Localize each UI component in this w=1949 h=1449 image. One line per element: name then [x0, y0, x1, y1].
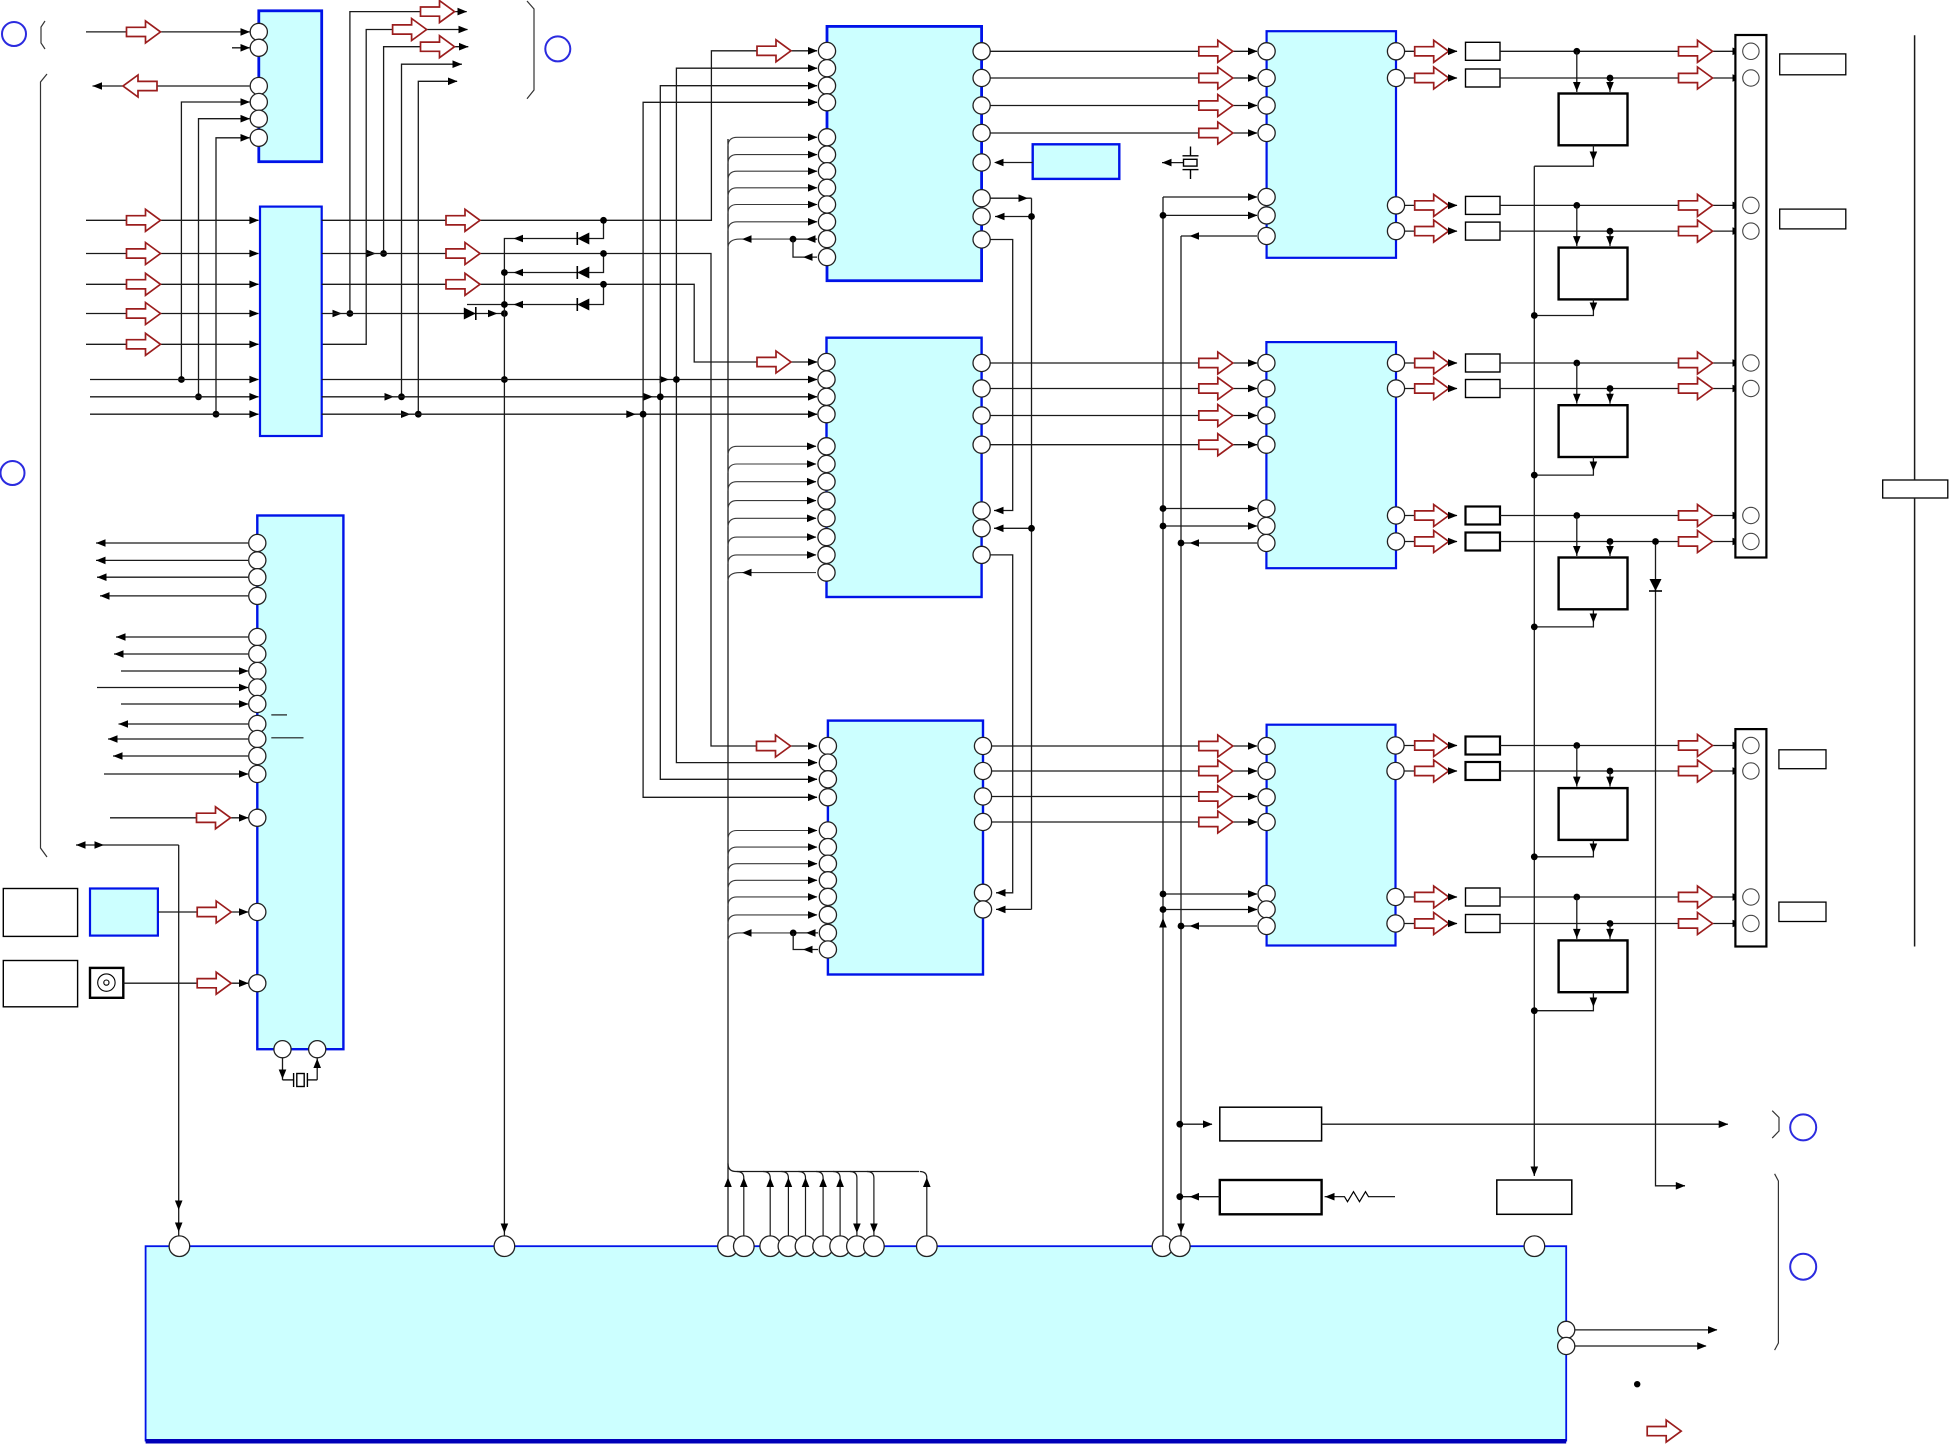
wire T6 drop2	[1606, 924, 1614, 939]
U9 right pin 1	[1558, 1321, 1575, 1338]
U8 right pin 2	[1387, 762, 1404, 779]
wire T4 drop2	[1606, 542, 1614, 557]
U7 left pin 4	[1258, 436, 1275, 453]
U10 left pin 16	[249, 975, 266, 992]
U9 top pin 11	[864, 1236, 885, 1257]
wire R-U7c to connector	[1500, 505, 1742, 527]
U5 left pin 9	[818, 510, 835, 527]
wire bus-A to U4 p6	[1163, 212, 1258, 220]
wire R-U4d out	[1404, 220, 1458, 242]
node P1 (blue circle top-left)	[2, 22, 26, 46]
junction V5/L8	[401, 410, 422, 418]
U6 right pin 4	[974, 813, 991, 830]
wire U1 pin5 to L7	[199, 115, 251, 397]
U10 left pin 3	[249, 569, 266, 586]
U5 left pin 8	[818, 492, 835, 509]
bus tap U3 lower pin 4	[728, 184, 818, 197]
U3 left pin 1	[818, 42, 835, 59]
wire T3 drop2	[1606, 389, 1614, 404]
bus tap U6 lower pin 2	[728, 843, 818, 856]
wire L1 input	[86, 209, 259, 231]
U9 top pin 7	[795, 1236, 816, 1257]
wire U1 pin4 to L6	[181, 98, 250, 379]
wire L4 input	[86, 303, 259, 325]
junction D3/V504	[501, 301, 508, 308]
block BX1	[1220, 1107, 1322, 1141]
U1 pin 1	[250, 23, 267, 40]
U6 left pin 3	[819, 771, 836, 788]
junction L4/bus	[501, 310, 508, 317]
wire X2 left	[279, 1058, 287, 1080]
junction T4 in2	[1607, 538, 1614, 545]
wire U1 input 1	[86, 21, 250, 43]
diode D5	[1649, 579, 1662, 591]
U5 left pin 6	[818, 455, 835, 472]
wire U10 out4	[100, 592, 248, 600]
U5 left pin 4	[818, 406, 835, 423]
U3 left pin 11	[818, 231, 835, 248]
junction U1p4/L6	[178, 376, 185, 383]
wire L8 branch up to U3 pin4	[643, 99, 817, 415]
wire L8 branch down to U6 pin4	[643, 414, 817, 801]
resistor R-U8a	[1466, 737, 1501, 755]
U8 left pin 7	[1258, 917, 1275, 934]
U9 top pin 12	[917, 1236, 938, 1257]
U4 left pin 7	[1258, 227, 1275, 244]
junction D1/L1	[600, 217, 607, 224]
wire T2 out	[1534, 299, 1597, 315]
U7 left pin 6	[1258, 517, 1275, 534]
U6 right pin 5	[974, 884, 991, 901]
wire U3 out1 to U4	[990, 40, 1258, 62]
CN1 pin 1	[1743, 43, 1759, 59]
bus tap U3 lower pin 1	[728, 134, 818, 147]
junction T5 in1	[1573, 742, 1580, 749]
bus tap U5 lower pin 4	[728, 497, 817, 510]
wire U1 pin6 to L8	[216, 134, 250, 414]
jack J1	[90, 968, 123, 998]
bus arrow-tap U3 pin7	[728, 235, 793, 248]
U8 left pin 3	[1258, 789, 1275, 806]
resistor R-U8b	[1466, 762, 1501, 780]
bus spine drop 7	[850, 1172, 861, 1237]
wire V2 (U2 out5 up, out top)	[322, 19, 468, 345]
wire R-U4b to connector	[1500, 67, 1742, 89]
U4 right pin 3	[1387, 197, 1404, 214]
junction L6 branch	[660, 376, 680, 384]
U4 left pin 2	[1258, 69, 1275, 86]
junction V1031/U5	[1028, 525, 1035, 532]
U9 top pin 3	[718, 1236, 739, 1257]
IC U10	[257, 516, 343, 1050]
U10 left pin 14	[249, 809, 266, 826]
wire bus-A to U4 p5	[1163, 193, 1258, 201]
wire U10 in8	[97, 684, 249, 692]
U3 right pin 1	[973, 43, 990, 60]
wire L6 branch up to U3 pin2	[676, 64, 817, 379]
wire R-U7a out	[1404, 352, 1458, 374]
U9 top pin 5	[760, 1236, 781, 1257]
U5 left pin 5	[818, 438, 835, 455]
junction B/U8p7	[1178, 923, 1185, 930]
wire L7	[322, 393, 818, 401]
wire rail V1534	[1533, 166, 1535, 1176]
U10 left pin 11	[249, 730, 266, 747]
U9 top pin 13	[1152, 1236, 1173, 1257]
junction T3 in1	[1573, 360, 1580, 367]
label box CN2 top	[1779, 750, 1826, 769]
U4 left pin 3	[1258, 97, 1275, 114]
wire bus-A to U8 p5	[1163, 890, 1258, 898]
wire U10 in7	[121, 667, 249, 675]
resistor R-U7d	[1466, 533, 1501, 551]
wire D5 net	[1656, 542, 1686, 1190]
U6 left pin 6	[819, 839, 836, 856]
node P2 (blue circle left-mid)	[1, 461, 25, 485]
U4 right pin 1	[1387, 43, 1404, 60]
U3 right pin 3	[973, 97, 990, 114]
CN1 pin 6	[1743, 380, 1759, 396]
wire L3 to U5 pin1	[322, 273, 818, 373]
wire R-U7a to connector	[1500, 352, 1742, 374]
wire U3 pin8 feedback	[793, 239, 817, 261]
wire L4 to diode bus	[322, 313, 505, 315]
U6 left pin 10	[819, 906, 836, 923]
wire R-U8d to connector	[1500, 913, 1742, 935]
U10 left pin 6	[249, 645, 266, 662]
wire R-U7b out	[1404, 378, 1458, 400]
wire D1 arrow	[514, 235, 524, 243]
U3 left pin 7	[818, 163, 835, 180]
junction BX1/bus-B	[1176, 1121, 1183, 1128]
wire R-U7d to connector	[1500, 531, 1742, 553]
wire R-U4b out	[1404, 67, 1458, 89]
wire BX1 in	[1180, 1120, 1213, 1128]
U3 left pin 4	[818, 94, 835, 111]
wire far-right vertical lower	[1914, 498, 1916, 947]
wire D3 arrow	[514, 301, 524, 309]
wire T6 out	[1534, 992, 1597, 1011]
junction T5/rail	[1531, 853, 1538, 860]
wire U10 bus left	[76, 841, 179, 849]
CN1 pin 2	[1743, 70, 1759, 86]
U4 left pin 1	[1258, 43, 1275, 60]
U9 bottom border	[146, 1439, 1567, 1444]
wire R-U8c to connector	[1500, 886, 1742, 908]
transformer block T5	[1559, 788, 1628, 840]
U3 left pin 12	[818, 249, 835, 266]
U1 pin 4	[250, 93, 267, 110]
module M1 (cyan)	[90, 889, 158, 936]
transformer block T6	[1559, 940, 1628, 992]
IC U6	[828, 721, 983, 975]
bus spine drop 5	[816, 1172, 827, 1237]
wire V1 (L4 branch up, out top)	[350, 1, 467, 314]
bus tap U6 lower pin 1	[728, 827, 818, 840]
wire T2 drop1	[1573, 205, 1581, 246]
bracket left main	[41, 74, 48, 857]
U5 right pin 7	[973, 546, 990, 563]
wire U3 out2 to U4	[990, 67, 1258, 89]
IC U4	[1267, 31, 1396, 258]
bus spine drop 9	[920, 1172, 931, 1237]
bus tap U6 lower pin 4	[728, 877, 818, 890]
wire D3 net	[467, 284, 604, 304]
junction U1p6/L8	[213, 411, 220, 418]
U6 left pin 12	[819, 941, 836, 958]
bracket top-right of U1 outputs	[527, 1, 534, 99]
U5 right pin 2	[973, 380, 990, 397]
wire U6 pin8 feedback	[793, 933, 818, 953]
U4 right pin 4	[1387, 223, 1404, 240]
label box far-right	[1883, 480, 1948, 498]
junction T2 in2	[1607, 228, 1614, 235]
wire U6 out3 to U8	[992, 786, 1258, 808]
wire L6 left	[90, 376, 259, 384]
U7 right pin 2	[1387, 380, 1404, 397]
CN2 pin 3	[1743, 889, 1759, 905]
junction T1 in2	[1607, 75, 1614, 82]
wire rail into box C	[1531, 1167, 1539, 1177]
junction V3/L2	[367, 250, 388, 258]
resistor R-BX2 (zigzag)	[1325, 1192, 1395, 1202]
resistor R-U8d	[1466, 915, 1501, 933]
bus tap U6 lower pin 6	[728, 911, 818, 924]
wire R-U4c to connector	[1500, 194, 1742, 216]
wire bottom-right arrow	[1647, 1420, 1681, 1442]
transformer block T4	[1559, 558, 1628, 610]
bus tap U5 lower pin 5	[728, 515, 817, 528]
U10 inner mark 2	[271, 737, 303, 739]
resistor R-U8c	[1466, 888, 1501, 906]
wire R-U4d to connector	[1500, 220, 1742, 242]
wire U3 p6 loop	[990, 194, 1032, 202]
wire U5 out4 to U7	[990, 434, 1258, 456]
U3 left pin 2	[818, 60, 835, 77]
U10 left pin 8	[249, 679, 266, 696]
bus spine drop 3	[781, 1172, 792, 1237]
IC U3	[827, 26, 982, 280]
U4 left pin 6	[1258, 207, 1275, 224]
wire U6 out1 to U8	[992, 735, 1258, 757]
bus arrow-tap U5 pin8	[728, 569, 816, 581]
wire L6	[322, 376, 818, 384]
wire V179 to U9	[175, 845, 183, 1237]
junction T3 in2	[1607, 385, 1614, 392]
wire D2 arrow	[514, 269, 524, 277]
wire T4 drop1	[1573, 516, 1581, 557]
wire R-U4c out	[1404, 194, 1458, 216]
IC U1	[259, 11, 322, 162]
wire U10 out1	[96, 539, 248, 547]
U6 left pin 5	[819, 822, 836, 839]
wire T5 drop2	[1606, 771, 1614, 787]
bus arrow-tap U6 pin7	[728, 929, 793, 941]
U5 right pin 4	[973, 436, 990, 453]
resistor R-U4a	[1466, 42, 1501, 60]
U6 left pin 9	[819, 888, 836, 905]
IC U8	[1267, 725, 1396, 946]
junction T6/rail	[1531, 1007, 1538, 1014]
wire L3 input	[86, 273, 259, 295]
junction L8 branch	[626, 410, 646, 418]
wire R-U8a out	[1404, 735, 1458, 757]
transformer block T1	[1559, 94, 1628, 146]
wire OSC1 to U3	[994, 159, 1033, 167]
junction T5 in2	[1607, 768, 1614, 775]
U1 pin 2	[250, 39, 267, 56]
node stray dot	[1634, 1381, 1640, 1387]
U3 left pin 8	[818, 179, 835, 196]
U9 right pin 2	[1558, 1337, 1575, 1354]
U5 left pin 7	[818, 473, 835, 490]
crystal X2	[283, 1073, 318, 1087]
U6 left pin 8	[819, 872, 836, 889]
CN1 pin 5	[1743, 355, 1759, 371]
wire L6 branch down to U6 pin2	[676, 380, 817, 767]
transformer block T2	[1559, 248, 1628, 300]
wire T6 drop1	[1573, 897, 1581, 939]
bus tap U6 lower pin 3	[728, 860, 818, 873]
bracket top-left small	[41, 21, 45, 49]
junction D2/L2	[600, 250, 607, 257]
U6 left pin 11	[819, 924, 836, 941]
wire U10 out11	[108, 735, 248, 743]
U5 left pin 10	[818, 529, 835, 546]
U6 left pin 4	[819, 789, 836, 806]
U6 left pin 7	[819, 855, 836, 872]
junction D3/L3	[600, 281, 607, 288]
junction T4 in1	[1573, 512, 1580, 519]
wire U1 output 3	[93, 75, 250, 97]
junction BX2/bus-B	[1176, 1193, 1183, 1200]
node P3 (blue circle top-center)	[545, 36, 570, 61]
diode D1	[577, 232, 589, 245]
junction U3 fb	[790, 236, 797, 243]
oscillator module OSC1	[1033, 144, 1120, 179]
wire L4 end	[488, 310, 498, 318]
wire T2 drop2	[1606, 231, 1614, 246]
wire V5 (L8 branch up, out top)	[418, 78, 457, 415]
resistor R-U7c	[1466, 507, 1501, 525]
U3 right pin 6	[973, 190, 990, 207]
U6 right pin 2	[974, 762, 991, 779]
resistor R-U4c	[1466, 196, 1501, 214]
U7 left pin 1	[1258, 354, 1275, 371]
wire U10 in14	[110, 807, 249, 829]
diode D2	[577, 266, 589, 279]
bus tap U5 lower pin 7	[728, 551, 817, 564]
U9 top pin 4	[734, 1236, 755, 1257]
wire T3 drop1	[1573, 363, 1581, 404]
wire X2 right	[313, 1058, 321, 1080]
U7 right pin 3	[1387, 507, 1404, 524]
junction U6 fb	[790, 930, 797, 937]
junction T2/rail	[1531, 312, 1538, 319]
bracket BX1-out small	[1772, 1111, 1779, 1138]
wire T1 drop2	[1606, 78, 1614, 92]
junction V1031/U3p7	[1028, 213, 1035, 220]
U3 right pin 4	[973, 124, 990, 141]
wire U9 out right 1	[1575, 1326, 1718, 1334]
wire L2 to U6 pin1	[322, 243, 818, 758]
wire U5 out3 to U7	[990, 405, 1258, 427]
U5 left pin 11	[818, 546, 835, 563]
junction T4/rail	[1531, 624, 1538, 631]
junction T6 in1	[1573, 894, 1580, 901]
wire U6 out2 to U8	[992, 760, 1258, 782]
junction U1p5/L7	[195, 393, 202, 400]
wire BX1 out	[1322, 1120, 1729, 1128]
U6 left pin 2	[819, 754, 836, 771]
wire U10 out6	[114, 650, 248, 658]
wire U10 out12	[113, 752, 248, 760]
U1 pin 5	[250, 110, 267, 127]
U1 pin 6	[250, 129, 267, 146]
label box CN1 mid	[1780, 209, 1846, 229]
connector CN2	[1735, 729, 1766, 946]
U4 left pin 4	[1258, 124, 1275, 141]
bus tap U3 lower pin 2	[728, 151, 818, 164]
wire T1 drop1	[1573, 51, 1581, 92]
U9 top pin 14	[1170, 1236, 1191, 1257]
wire U7 p7 to bus-B	[1181, 539, 1257, 547]
wire J1 to U10	[123, 972, 248, 994]
resistor R-U7a	[1466, 354, 1501, 372]
U3 left pin 6	[818, 146, 835, 163]
U10 left pin 12	[249, 747, 266, 764]
wire L8	[322, 410, 818, 418]
wire L2 input	[86, 243, 259, 265]
connector CN1	[1735, 35, 1766, 558]
wire U3 out3 to U4	[990, 95, 1258, 117]
U3 left pin 3	[818, 77, 835, 94]
transformer block T3	[1559, 405, 1628, 457]
wire R-U4a out	[1404, 40, 1458, 62]
wire U10 out5	[116, 633, 248, 641]
bracket right large	[1775, 1174, 1779, 1350]
bus tap U5 lower pin 6	[728, 533, 817, 546]
U9 top pin 10	[847, 1236, 868, 1257]
junction V4/L7	[385, 393, 405, 401]
wire far-right vertical upper	[1914, 35, 1916, 480]
wire R-U8b to connector	[1500, 760, 1742, 782]
U5 left pin 12	[818, 564, 835, 581]
bus spine drop 4	[799, 1172, 810, 1237]
U10 left pin 15	[249, 903, 266, 920]
U5 right pin 1	[973, 354, 990, 371]
wire U5 p554 to U6	[990, 555, 1013, 897]
wire U10 out2	[96, 557, 248, 565]
IC U9	[146, 1246, 1567, 1440]
bus tap U3 lower pin 3	[728, 167, 818, 180]
crystal X1	[1183, 147, 1199, 180]
junction L7 branch	[644, 393, 664, 401]
wire U10 in13	[104, 770, 249, 778]
wire U10 out10	[119, 720, 249, 728]
block BX2	[1220, 1180, 1322, 1214]
wire T4 out	[1534, 610, 1597, 627]
junction T3/rail	[1531, 472, 1538, 479]
wire V1031 vertical	[1031, 198, 1033, 909]
U9 top pin 8	[813, 1236, 834, 1257]
U10 left pin 4	[249, 587, 266, 604]
junction A/U8p5	[1160, 891, 1167, 898]
U8 right pin 4	[1387, 915, 1404, 932]
wire R-U8c out	[1404, 886, 1458, 908]
U10 left pin 9	[249, 695, 266, 712]
resistor R-U4d	[1466, 222, 1501, 240]
